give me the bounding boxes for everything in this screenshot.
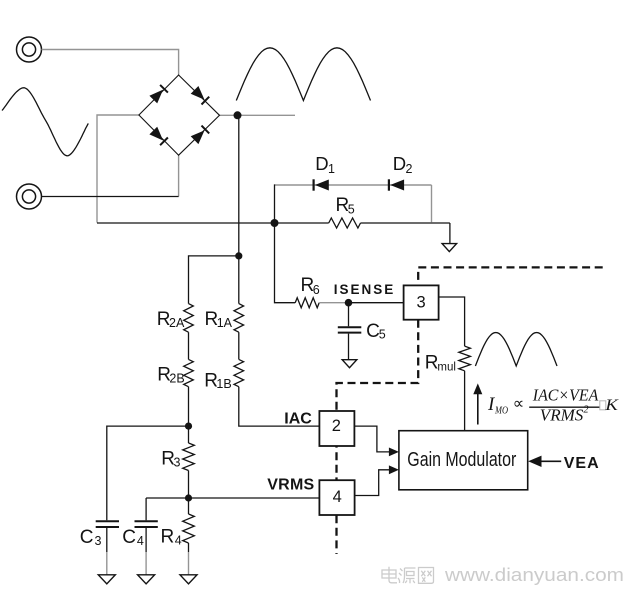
Gain Modulator block U1: [399, 431, 528, 490]
wire pin4 to gain modulator: [355, 470, 390, 496]
wire R1B to pin 2: [239, 387, 320, 426]
node dot x=188.5 y=426: [185, 423, 192, 430]
wire: Rmul to Gain Modulator: [464, 371, 466, 431]
svg-text:2: 2: [583, 405, 589, 416]
node dot x=188.5 y=498: [185, 494, 192, 501]
svg-text:3: 3: [417, 293, 426, 311]
wire: left to C3: [107, 426, 189, 520]
wire: down from rail dot to R6: [275, 223, 296, 303]
svg-text:4: 4: [137, 534, 144, 548]
svg-text:6: 6: [313, 283, 320, 297]
resistor R2A: [184, 304, 194, 333]
node ISENSE dot: [345, 299, 353, 307]
svg-text:1A: 1A: [217, 316, 233, 330]
svg-text:IAC: IAC: [284, 410, 312, 427]
svg-text:5: 5: [379, 328, 386, 342]
svg-text:Gain Modulator: Gain Modulator: [407, 449, 516, 471]
IMO arrow up: [473, 383, 482, 424]
wire: R6 to ISENSE node (gray): [319, 302, 348, 304]
wire: return rail horizontal: [97, 222, 450, 224]
ground (C5): [342, 360, 357, 368]
pin 3 box: [404, 285, 439, 319]
svg-text:2B: 2B: [169, 371, 184, 385]
wire: bridge left vertex down to return rail: [97, 115, 139, 223]
svg-text:D: D: [315, 153, 328, 174]
wire between R1A R1B: [238, 332, 240, 359]
svg-text:1B: 1B: [216, 377, 231, 391]
watermark: [382, 567, 434, 584]
resistor R5: [329, 218, 361, 228]
svg-text:∝: ∝: [513, 395, 524, 412]
pin 4 box: [319, 480, 354, 515]
wire R2B down to IAC node: [188, 387, 190, 426]
svg-text:4: 4: [333, 488, 342, 506]
node: DC+ output junction dot: [234, 111, 242, 119]
AC input sine waveform annotation: [2, 88, 88, 156]
wire: vertical to R1A: [238, 256, 240, 304]
svg-text:ISENSE: ISENSE: [334, 282, 394, 297]
capacitor C5: [338, 303, 362, 360]
svg-text:MO: MO: [494, 405, 508, 416]
terminal J2 (AC input bottom): [17, 184, 42, 209]
ground (C3): [98, 575, 115, 584]
wire: ISENSE node to pin 3: [349, 302, 404, 304]
resistor R1A: [234, 304, 244, 333]
resistor R6: [295, 298, 319, 308]
wire: main vertical DC+ bus: [238, 115, 240, 256]
svg-text:C: C: [80, 527, 94, 548]
ground (R5 right): [449, 223, 451, 244]
wire between R2A R2B: [188, 332, 190, 359]
capacitor C3: [96, 521, 119, 575]
wire: D1-D2 branch gray top: [275, 184, 432, 186]
svg-text:IAC×VEA: IAC×VEA: [532, 386, 599, 405]
svg-text:2A: 2A: [169, 316, 185, 330]
VEA input arrow: [528, 456, 561, 467]
node: rail junction dot at x=274.5: [271, 219, 279, 227]
bridge rectifier BR1 diamond: [139, 75, 220, 155]
wire: pin3 to Rmul: [439, 297, 465, 346]
resistor R4: [188, 498, 190, 514]
wire: top terminal to bridge top vertex: [42, 50, 179, 76]
svg-text:www.dianyuan.com: www.dianyuan.com: [444, 564, 624, 585]
svg-text:C: C: [122, 527, 136, 548]
ground (R4): [180, 575, 197, 584]
wire pin2 to gain modulator: [354, 426, 390, 452]
svg-text:3: 3: [95, 534, 102, 548]
resistor R1B: [234, 359, 244, 386]
bridge diode bottom-right: [191, 126, 210, 145]
svg-text:mul: mul: [437, 361, 456, 373]
svg-text:VRMS: VRMS: [267, 477, 314, 494]
rectified waveform annotation (top): [236, 48, 370, 101]
ground (C4): [138, 575, 155, 584]
svg-text:D: D: [393, 153, 406, 174]
svg-text:VEA: VEA: [564, 455, 599, 472]
svg-text:1: 1: [328, 162, 335, 176]
bridge diode bottom-left: [149, 127, 168, 146]
resistor R2B: [184, 359, 194, 386]
svg-text:C: C: [366, 321, 380, 342]
svg-text:K: K: [604, 397, 619, 414]
wire: bottom terminal to bridge bottom: [42, 196, 179, 198]
svg-text:VRMS: VRMS: [540, 406, 584, 425]
wire: D branch left vertical: [274, 184, 276, 223]
bridge diode top-right: [191, 86, 210, 105]
wire: VRMS rail: [146, 497, 319, 499]
svg-text:5: 5: [348, 203, 355, 217]
wire: bridge bottom vertex down: [178, 155, 180, 196]
svg-text:2: 2: [332, 417, 341, 435]
wire: horizontal to R2 chain: [189, 256, 239, 304]
formula I_MO = IAC*VEA/VRMS^2 K: [487, 386, 619, 425]
capacitor C4: [135, 521, 158, 575]
dashed IC boundary: [418, 267, 603, 285]
diode D1: [314, 179, 329, 190]
pin 2 box: [319, 411, 354, 446]
svg-text:R: R: [161, 526, 175, 547]
resistor Rmul: [459, 346, 471, 371]
rectified waveform annotation (at Rmul): [475, 333, 557, 367]
terminal J1 (AC input top): [17, 37, 42, 62]
node: junction dot x=239 y=256: [235, 252, 242, 259]
diode D2: [389, 179, 404, 190]
wire: bridge right vertex to DC+ node: [220, 114, 296, 116]
svg-text:4: 4: [175, 534, 182, 548]
svg-text:3: 3: [174, 455, 181, 469]
bridge diode top-left: [149, 85, 168, 104]
svg-text:2: 2: [406, 162, 413, 176]
resistor R3: [188, 426, 190, 443]
